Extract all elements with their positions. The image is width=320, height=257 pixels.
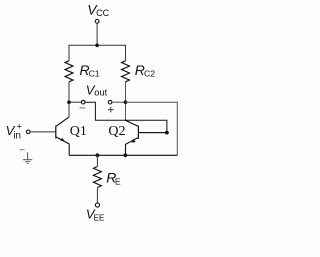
svg-text:out: out (94, 88, 107, 98)
svg-text:+: + (16, 122, 22, 133)
resistor RC1 (65, 61, 73, 82)
Q1 collector (56, 117, 69, 126)
junction dot Q2 emitter (124, 153, 128, 157)
transistor Q2 (126, 120, 166, 155)
wire minus-terminal branch to Q2 base loop (85, 102, 167, 132)
wire top rail (69, 45, 126, 61)
terminal Vout minus (81, 100, 85, 104)
Q2 base wire (139, 132, 165, 134)
svg-text:E: E (115, 176, 121, 186)
Q2 collector (126, 120, 139, 126)
wire emitter rail (69, 154, 177, 156)
label plus (Vout) (108, 109, 114, 111)
wire plus terminal to node B (112, 101, 126, 103)
junction dot node A (67, 100, 71, 104)
junction dot VCC-rail (95, 44, 99, 48)
wire node A to minus terminal (69, 101, 81, 103)
wire RE stem (96, 155, 98, 166)
wire RC2 bottom to crossing (125, 82, 127, 121)
wire RE bottom stem (96, 188, 98, 203)
wire VCC stem (96, 23, 98, 45)
Q1 emitter (56, 137, 69, 155)
junction dot at base loop corner (165, 131, 169, 135)
svg-text:C2: C2 (144, 69, 155, 79)
svg-text:CC: CC (96, 8, 109, 18)
resistor RE (93, 167, 101, 188)
label minus (Vin) (20, 149, 25, 151)
Q2 emitter arrow (131, 139, 135, 143)
terminal Vout plus (108, 100, 112, 104)
Q2 emitter (126, 138, 139, 156)
terminal VEE circle (95, 203, 99, 207)
transistor Q1 (30, 117, 69, 155)
ground (23, 152, 32, 163)
Q1 bar (55, 126, 57, 139)
svg-text:C1: C1 (89, 69, 100, 79)
node VCC terminal circle (95, 19, 99, 23)
junction dot RE tap (96, 153, 100, 157)
Q1 base wire (30, 131, 55, 133)
wire RC1 bottom to node A (68, 82, 70, 117)
svg-text:Q1: Q1 (70, 124, 87, 139)
wire outer feedback loop right (126, 102, 178, 155)
junction dot node B (124, 100, 128, 104)
Q2 bar (137, 126, 139, 139)
terminal Vin circle (26, 130, 30, 134)
svg-text:Q2: Q2 (108, 124, 125, 139)
Q1 emitter arrow (60, 138, 65, 142)
resistor RC2 (122, 61, 130, 82)
label minus (Vout) (80, 107, 86, 109)
svg-text:EE: EE (94, 213, 105, 222)
